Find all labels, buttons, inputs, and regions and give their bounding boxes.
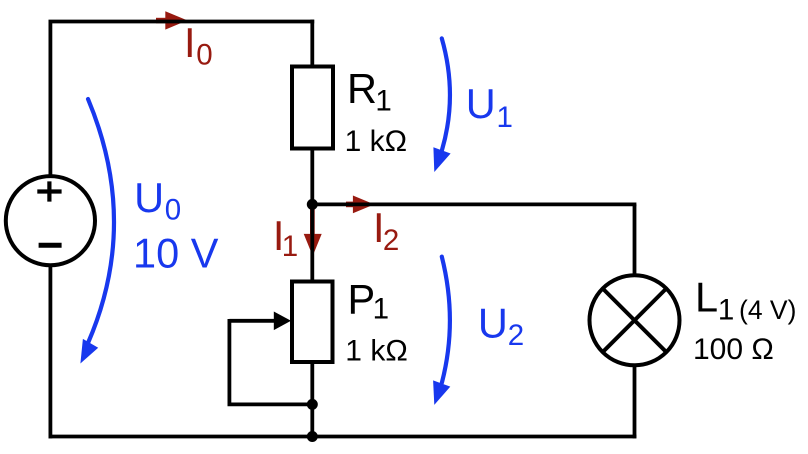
wire: lamp bottom to bottom rail	[633, 366, 637, 438]
svg-text:100 Ω: 100 Ω	[693, 333, 774, 366]
svg-text:(4 V): (4 V)	[739, 295, 796, 325]
svg-text:I: I	[184, 19, 196, 66]
svg-text:U: U	[478, 300, 508, 347]
current arrow I2 (tail, on lamp branch)	[346, 202, 354, 208]
potentiometer P1	[228, 282, 333, 405]
voltage arrow U2 (across P1)	[433, 257, 450, 405]
svg-text:1: 1	[497, 101, 513, 134]
wiper return wire down	[227, 319, 231, 404]
node A (junction below R1)	[307, 199, 318, 210]
wire: down into R1 top	[310, 20, 314, 66]
svg-text:10 V: 10 V	[133, 230, 219, 277]
wire: node A to lamp branch (mid horizontal)	[312, 202, 636, 206]
svg-text:P: P	[348, 276, 376, 323]
voltage arrow U1 (across R1)	[433, 38, 450, 172]
wiper arrow of P1	[229, 319, 274, 323]
wire: bottom rail	[49, 435, 637, 439]
svg-text:1 kΩ: 1 kΩ	[345, 335, 407, 368]
resistor R1	[292, 67, 333, 149]
wire: top-left vertical (source top to top rail)	[49, 22, 53, 177]
wire: source bottom to bottom rail	[49, 266, 53, 438]
svg-text:1 kΩ: 1 kΩ	[345, 125, 407, 158]
voltage arrow U0 (curved, source loop)	[80, 99, 114, 364]
current arrow I1 (head)	[304, 234, 322, 256]
current arrow I1 (tail, below node A)	[310, 208, 315, 235]
wire: P1 bottom through wiper node to bottom rail	[310, 363, 314, 437]
svg-text:U: U	[466, 80, 496, 127]
svg-text:1: 1	[718, 294, 734, 327]
node B (wiper junction)	[307, 399, 318, 410]
voltage source U0 (circle symbol with polarity signs)	[6, 176, 95, 265]
svg-text:2: 2	[508, 319, 524, 352]
wire: top horizontal rail	[49, 20, 315, 24]
svg-text:2: 2	[383, 224, 399, 257]
lamp L1 (circle with X)	[590, 275, 680, 365]
svg-text:1: 1	[375, 85, 391, 118]
svg-text:R: R	[347, 65, 377, 112]
current arrow I2 (head)	[353, 196, 374, 214]
svg-text:0: 0	[165, 194, 181, 227]
svg-text:U: U	[134, 174, 164, 221]
svg-text:1: 1	[373, 293, 389, 326]
wire: lamp branch down to lamp top	[633, 204, 637, 274]
current arrow I0 (head)	[165, 11, 187, 29]
node C (bottom rail junction)	[307, 431, 318, 442]
wiper return wire to node B	[228, 402, 314, 406]
svg-text:L: L	[695, 274, 718, 321]
wire: R1 bottom to node A	[310, 149, 314, 206]
svg-text:1: 1	[282, 230, 298, 263]
svg-text:0: 0	[196, 39, 212, 72]
current arrow I0 (tail, on top rail)	[156, 18, 166, 24]
wire: node A down to P1 top	[310, 203, 314, 281]
